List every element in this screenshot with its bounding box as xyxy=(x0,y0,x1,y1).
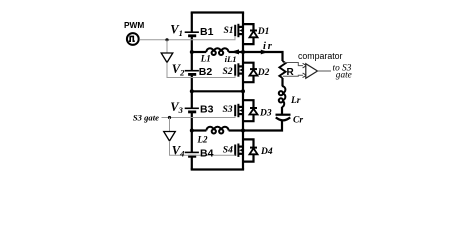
node: PWM line junction xyxy=(165,38,168,41)
comparator U3 xyxy=(306,64,318,79)
arrow ir (pointing right) xyxy=(261,50,268,55)
node: L2 to switch rail junction xyxy=(241,129,245,133)
wire: Cr return to S3-S4 node xyxy=(243,121,282,131)
svg-text:Cr: Cr xyxy=(293,115,303,125)
svg-text:PWM: PWM xyxy=(124,20,144,30)
svg-text:B3: B3 xyxy=(200,104,214,116)
svg-text:S3 gate: S3 gate xyxy=(133,113,159,123)
node: B3-B4 junction xyxy=(190,129,194,133)
transistor S4 xyxy=(235,144,243,157)
svg-text:B4: B4 xyxy=(200,147,214,159)
diode D1 xyxy=(243,24,258,44)
node: B2-B3 junction xyxy=(190,89,194,93)
wire: junction down to inverter U1 xyxy=(166,40,168,53)
svg-text:iL1: iL1 xyxy=(225,54,237,64)
resistor R xyxy=(279,61,285,78)
svg-text:S1: S1 xyxy=(224,26,234,36)
node: L1 to switch rail junction xyxy=(241,50,245,54)
node: S3 gate line junction xyxy=(168,116,171,119)
svg-text:D3: D3 xyxy=(259,108,272,118)
svg-text:comparator: comparator xyxy=(298,51,343,61)
wire: R to Lr xyxy=(281,78,283,86)
wire: inverter U1 output to S2 gate xyxy=(167,63,235,78)
PWM source xyxy=(127,33,139,45)
svg-text:ir: ir xyxy=(263,41,274,52)
wire: Lr to Cr xyxy=(281,107,283,115)
battery B2 xyxy=(185,71,199,75)
wire: comparator top tap from R xyxy=(283,63,303,66)
inverter U2 xyxy=(164,132,176,142)
wire: junction down to inverter U2 xyxy=(169,118,171,132)
node: B1-B2 junction xyxy=(190,50,194,54)
svg-text:S2: S2 xyxy=(223,67,233,77)
svg-text:S3: S3 xyxy=(223,105,233,115)
wire: ir branch from S1-S2 node to resonant branch xyxy=(243,52,283,61)
arrow iL1 (pointing left on L1 wire) xyxy=(231,49,239,54)
comparator input arrowheads xyxy=(303,63,307,77)
wire: mid rail B2-B3 node to S2-S3 node xyxy=(192,90,243,92)
wire: top rail from battery stack to switch rail xyxy=(191,11,244,13)
svg-text:L1: L1 xyxy=(200,54,211,64)
battery B3 xyxy=(185,108,199,112)
wire: battery rail segments xyxy=(191,13,193,33)
wire: comparator output xyxy=(318,70,332,72)
wire: PWM gate line to S1 xyxy=(139,36,235,40)
diode D4 xyxy=(243,139,258,161)
wire: bottom rail xyxy=(191,168,244,170)
svg-text:gate: gate xyxy=(336,70,352,80)
wire: S3 gate line xyxy=(162,116,236,117)
svg-text:B2: B2 xyxy=(199,66,213,78)
inductor Lr xyxy=(279,86,286,107)
diode D2 xyxy=(243,63,258,82)
transistor S2 xyxy=(235,63,243,76)
wire: main switch rail (vertical) xyxy=(242,13,244,170)
transistor S3 xyxy=(235,104,243,117)
wire: comparator bottom tap from R xyxy=(283,74,303,77)
inverter U1 xyxy=(161,53,173,63)
capacitor Cr xyxy=(276,115,291,121)
svg-text:S4: S4 xyxy=(223,145,233,155)
svg-text:D2: D2 xyxy=(257,68,270,78)
svg-text:Lr: Lr xyxy=(290,96,301,106)
svg-text:L2: L2 xyxy=(197,135,208,145)
node: mid rail to switch rail junction xyxy=(241,89,245,93)
svg-text:D1: D1 xyxy=(257,27,270,37)
inductor L1 xyxy=(192,48,243,55)
battery B1 xyxy=(185,32,199,36)
battery B4 xyxy=(185,152,199,156)
diode D3 xyxy=(243,100,258,121)
svg-text:R: R xyxy=(287,67,295,78)
inductor L2 xyxy=(192,127,243,134)
transistor S1 xyxy=(235,24,243,37)
svg-text:B1: B1 xyxy=(200,26,214,38)
svg-text:D4: D4 xyxy=(260,147,273,157)
wire: inverter U2 output to S4 gate xyxy=(170,141,236,156)
